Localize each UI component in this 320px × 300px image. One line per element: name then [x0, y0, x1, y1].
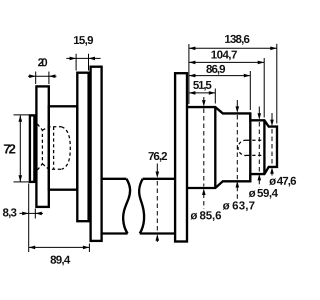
dim 89,4 right arrowhead — [83, 246, 90, 250]
dia 47,6 dashed centerline — [271, 129, 273, 165]
dim 20 line — [28, 75, 57, 77]
dim 20 right extension line — [48, 72, 50, 85]
break line right — [139, 179, 144, 234]
step2/step3 shoulder edge — [249, 113, 251, 181]
collar disc E — [175, 73, 187, 241]
dia 85,6 top arrowhead — [202, 100, 206, 107]
dim 104,7 right arrowhead — [258, 61, 265, 65]
hidden bore upper splay — [42, 127, 61, 130]
stepped shaft outline (steps 85,6 / 63,7 / 59,4 / 47,6) — [187, 107, 277, 188]
shared left extension line of length dims — [188, 44, 190, 104]
hidden keyway round end — [238, 140, 246, 155]
dia 59,4 upper leader — [258, 107, 260, 115]
svg-text:51,5: 51,5 — [193, 80, 213, 92]
dim 76,2 bottom arrowhead — [156, 234, 160, 241]
dia 63,7 dashed centerline — [236, 115, 238, 179]
dim 51,5 line — [189, 92, 215, 94]
svg-text:ø 85,6: ø 85,6 — [190, 210, 221, 222]
shaft top line left of break — [102, 178, 127, 180]
step3 taper-start edge — [263, 120, 265, 174]
svg-text:ø 63,7: ø 63,7 — [223, 200, 255, 212]
dim 15,9 right extension line — [88, 54, 90, 71]
svg-text:15,9: 15,9 — [73, 35, 93, 47]
dia 59,4 dashed centerline — [258, 122, 260, 172]
dim 15,9 left extension line — [75, 54, 77, 71]
svg-text:104,7: 104,7 — [211, 50, 238, 62]
dim 138,6 line — [189, 47, 277, 49]
dim 76,2 dashed centerline — [156, 181, 158, 232]
dim 86,9 left arrowhead — [189, 74, 196, 78]
dim 72 top extension line — [14, 114, 34, 116]
dim 15,9 left arrowhead — [70, 57, 77, 61]
dim 20 left extension line — [35, 72, 37, 85]
dim 51,5 right arrowhead — [209, 91, 216, 95]
dim 86,9 line — [189, 75, 250, 77]
dia 63,7 bottom arrowhead — [236, 181, 240, 188]
svg-text:20: 20 — [38, 57, 48, 69]
dim 104,7 right extension line — [263, 58, 265, 118]
dim 20 left arrowhead — [29, 74, 36, 78]
dia 59,4 lower leader to label — [258, 180, 260, 188]
shaft bottom line left of break — [102, 232, 128, 234]
dia 59,4 bottom arrowhead — [258, 174, 262, 181]
hidden bore bulge in hub — [62, 127, 71, 170]
hidden bore taper in flange discs — [37, 124, 42, 170]
dim 8,3 / 89,4 shared left extension line — [28, 184, 30, 253]
dim 104,7 line — [189, 61, 264, 63]
dia 47,6 lower leader to label — [271, 173, 273, 176]
dim 104,7 left arrowhead — [189, 61, 196, 65]
svg-text:86,9: 86,9 — [206, 64, 226, 76]
svg-text:72: 72 — [3, 142, 16, 157]
hidden bore lower splay — [42, 164, 61, 170]
dia 85,6 bottom arrowhead — [202, 189, 206, 196]
shaft bottom line right of break — [140, 232, 175, 234]
dim 8,3 right arrowhead — [35, 212, 42, 216]
svg-text:76,2: 76,2 — [148, 151, 168, 163]
dim 138,6 right arrowhead — [270, 47, 277, 51]
svg-text:ø 59,4: ø 59,4 — [249, 188, 279, 200]
hidden bore inner edge — [53, 127, 55, 170]
dim 8,3 right extension line — [34, 209, 36, 219]
svg-text:89,4: 89,4 — [50, 255, 71, 267]
dia 85,6 dashed centerline — [203, 109, 205, 187]
dia 85,6 upper leader — [203, 97, 205, 102]
dim 89,4 left arrowhead — [29, 246, 36, 250]
dia 47,6 bottom arrowhead — [270, 167, 274, 174]
dia 63,7 upper leader — [236, 100, 238, 108]
dim 15,9 right arrowhead — [89, 57, 96, 61]
dim 76,2 upper leader — [156, 164, 158, 174]
dim 72 bottom arrowhead — [19, 175, 23, 182]
dim 20 right arrowhead — [49, 74, 56, 78]
dim 51,5 left arrowhead — [189, 91, 196, 95]
dim 72 line — [19, 116, 21, 182]
dim 76,2 top arrowhead — [156, 172, 160, 179]
dim 89,4 right extension line — [88, 244, 90, 253]
svg-text:8,3: 8,3 — [2, 207, 17, 219]
dim 8,3 line — [20, 212, 44, 214]
dim 8,3 left arrowhead — [22, 212, 29, 216]
dia 85,6 lower leader to label — [203, 194, 205, 210]
dim 76,2 lower tail — [156, 236, 158, 243]
step1 taper-start edge — [214, 107, 216, 188]
break line left — [123, 179, 130, 234]
dia 59,4 top arrowhead — [258, 113, 262, 120]
dim 72 bottom extension line — [14, 181, 30, 183]
hidden keyway bottom line — [247, 154, 264, 156]
dim 86,9 right extension line — [249, 71, 251, 110]
flange disc B (20 thick) — [36, 86, 48, 206]
flange disc C (15,9 thick) — [77, 73, 88, 222]
dim 51,5 right extension line — [214, 89, 216, 104]
dim 138,6 right extension line — [276, 44, 278, 124]
dim 138,6 left arrowhead — [189, 47, 196, 51]
dia 63,7 lower leader to label — [236, 187, 238, 199]
dia 47,6 upper leader — [271, 113, 273, 120]
dia 47,6 top arrowhead — [270, 120, 274, 127]
flange disc D — [91, 67, 102, 241]
svg-text:138,6: 138,6 — [224, 34, 250, 46]
svg-text:ø 47,6: ø 47,6 — [269, 176, 296, 188]
hub cylinder between discs — [49, 106, 78, 189]
shaft top line right of break — [143, 178, 175, 180]
dim 72 top arrowhead — [19, 115, 23, 122]
dim 15,9 line — [66, 57, 100, 59]
dim 86,9 right arrowhead — [244, 74, 251, 78]
dia 63,7 top arrowhead — [236, 106, 240, 113]
dim 89,4 line — [29, 246, 90, 248]
flange disc A (8,3 thick) — [30, 115, 35, 181]
hidden keyway top line — [247, 139, 264, 141]
